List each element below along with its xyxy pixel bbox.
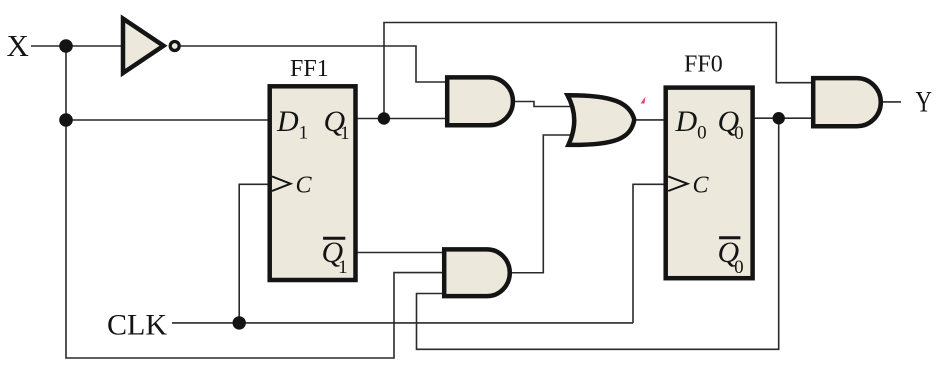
- svg-text:C: C: [296, 173, 313, 199]
- svg-text:FF0: FF0: [684, 52, 723, 78]
- svg-text:Y: Y: [916, 86, 933, 119]
- svg-text:X: X: [7, 28, 29, 63]
- svg-text:C: C: [693, 173, 710, 199]
- svg-text:CLK: CLK: [107, 309, 167, 342]
- svg-text:FF1: FF1: [290, 56, 329, 82]
